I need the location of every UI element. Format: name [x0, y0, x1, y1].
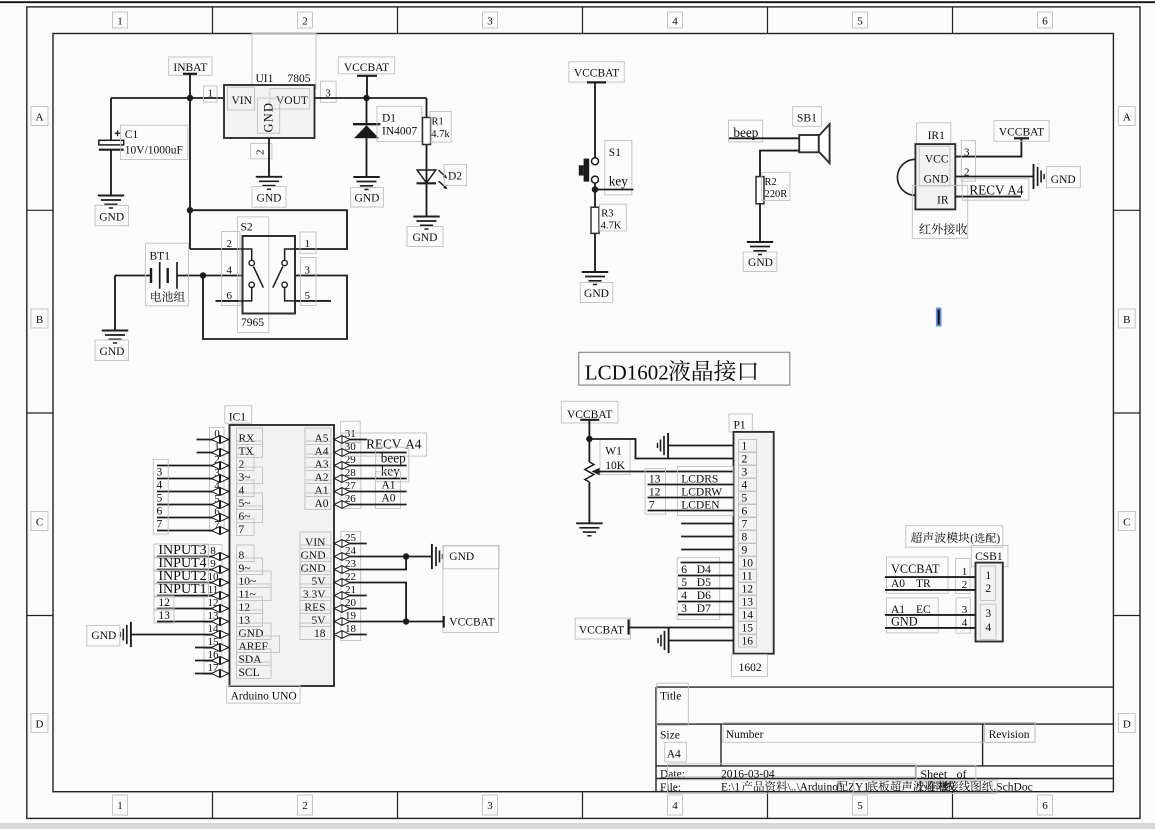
- svg-text:GND: GND: [891, 614, 918, 628]
- LED D2: [417, 170, 436, 183]
- svg-text:柀: 柀: [938, 780, 950, 794]
- IC1 pin name A0: [305, 493, 331, 510]
- wire pin4 feed: [203, 275, 243, 277]
- svg-text:2: 2: [742, 454, 748, 466]
- svg-text:2: 2: [302, 16, 308, 28]
- junction switch feed: [187, 207, 193, 213]
- junction pins 22-19: [403, 618, 409, 624]
- svg-text:VCCBAT: VCCBAT: [449, 617, 494, 629]
- connector CSB1 body: [976, 563, 1003, 642]
- svg-text:LCD1602: LCD1602: [585, 360, 669, 384]
- svg-text:D2: D2: [448, 170, 462, 182]
- row tick right: [1113, 412, 1140, 414]
- net label INPUT1: [154, 583, 209, 597]
- svg-text:5: 5: [742, 493, 748, 505]
- wire IC1 pin19 VCCBAT: [334, 621, 444, 623]
- wire IC1 pin1 stub: [197, 452, 230, 454]
- row tick right: [1113, 615, 1140, 617]
- P1 pin number boxes: [739, 440, 757, 453]
- svg-text:3: 3: [487, 800, 493, 812]
- junction W1 top: [586, 436, 592, 442]
- CSB1 inner boxes: [980, 566, 995, 601]
- row label C left: [31, 512, 48, 531]
- wire P1 pin10: [681, 562, 734, 564]
- svg-text:GND: GND: [924, 174, 949, 186]
- svg-text:5: 5: [305, 290, 311, 302]
- svg-text:TR: TR: [916, 578, 931, 590]
- wire IC1 pin23 gnd: [334, 557, 406, 570]
- IR receiver IR1 body: [915, 144, 955, 209]
- IC1 pin numbers 30-26 box: [341, 442, 361, 508]
- junction at C1/INBAT: [187, 95, 193, 101]
- wire P1 pin15: [629, 627, 734, 629]
- IC1 pin number 1: [210, 441, 225, 454]
- title block Sheet field: [916, 765, 976, 782]
- title block Number field: [723, 723, 1035, 743]
- svg-text:SCL: SCL: [239, 667, 260, 679]
- svg-text:4: 4: [742, 480, 748, 492]
- IC1 pin name TX left: [237, 441, 263, 458]
- IC1 pin arrow L14: [212, 631, 229, 639]
- wire IC1 pin26 A0: [334, 504, 407, 506]
- ground below U1: [256, 176, 282, 178]
- IR1 designator box: [917, 123, 951, 144]
- IC1 pin name 6~ left: [237, 506, 263, 523]
- wire key stub: [595, 189, 633, 191]
- svg-text:VIN: VIN: [232, 95, 253, 107]
- ground right of IR1: [1033, 164, 1035, 189]
- power port VCCBAT ir: [994, 121, 1049, 142]
- svg-text:220R: 220R: [765, 189, 788, 200]
- svg-text:5: 5: [857, 800, 863, 812]
- column label 1 top: [113, 12, 128, 28]
- IC1 pin arrow L5: [212, 501, 229, 509]
- svg-text:12: 12: [158, 597, 170, 609]
- wire P1 pin13 D6: [678, 601, 734, 603]
- svg-text:13: 13: [649, 473, 661, 485]
- svg-text:VOUT: VOUT: [276, 95, 308, 107]
- IC1 gnd vcc labels box: [443, 546, 499, 633]
- S2 left pin numbers: [222, 232, 241, 306]
- IC1 pin name GND r1: [300, 545, 331, 562]
- svg-text:13: 13: [742, 597, 754, 609]
- wire IC1 pin28 key: [334, 478, 407, 480]
- svg-text:Revision: Revision: [989, 729, 1030, 741]
- svg-text:7: 7: [742, 519, 748, 531]
- row label A right: [1118, 107, 1135, 126]
- svg-text:Date:: Date:: [660, 769, 685, 781]
- svg-text:VCC: VCC: [925, 154, 949, 166]
- wire P1 pin11 D4: [678, 575, 734, 577]
- Arduino IC1 body: [230, 425, 335, 686]
- svg-text:GND: GND: [584, 288, 609, 300]
- svg-text:A5: A5: [314, 433, 328, 445]
- wire IC1 pin16 stub: [195, 660, 230, 662]
- svg-text:1: 1: [305, 238, 311, 250]
- svg-text:9~: 9~: [239, 563, 251, 575]
- title block date value: [668, 764, 916, 777]
- wire IC1 pin25 stub: [334, 543, 367, 545]
- IC1 pin name 3.3V r4: [300, 584, 331, 601]
- svg-text:GND: GND: [257, 193, 282, 205]
- wire IC1 pin10 net: [157, 582, 230, 584]
- svg-text:8: 8: [742, 532, 748, 544]
- ground below C1: [98, 195, 124, 197]
- wire IC1 pin27 A1: [334, 491, 407, 493]
- wire IR1 gnd pin: [955, 176, 1033, 178]
- svg-text:4.7K: 4.7K: [601, 221, 622, 232]
- svg-text:1: 1: [117, 800, 123, 812]
- IC1 pin arrow L2: [212, 462, 229, 470]
- svg-text:VCCBAT: VCCBAT: [891, 562, 940, 576]
- net label RECV_A4: [962, 179, 1029, 201]
- svg-text:4.7k: 4.7k: [431, 129, 450, 140]
- IC1 pin numbers 25-18 box: [341, 532, 361, 641]
- label R1: [430, 112, 451, 143]
- svg-text:TX: TX: [239, 446, 255, 458]
- power port VCCBAT p15: [575, 618, 630, 639]
- power port VCCBAT ic1: [443, 616, 445, 628]
- svg-text:6: 6: [681, 564, 687, 576]
- column label 6 top: [1038, 12, 1053, 28]
- svg-text:9: 9: [742, 545, 748, 557]
- wire IC1 pin13 net: [157, 621, 230, 623]
- IC1 pin name VIN r0: [300, 532, 331, 549]
- IC1 pin arrow R9: [334, 579, 350, 587]
- svg-text:LCDRS: LCDRS: [681, 473, 718, 485]
- svg-text:RES: RES: [304, 602, 325, 614]
- svg-text:key: key: [381, 464, 400, 479]
- svg-text:D7: D7: [697, 603, 711, 615]
- IC1 pin arrow L15: [212, 644, 229, 652]
- row tick right: [1113, 209, 1140, 211]
- IC1 pin name 12 left: [237, 597, 263, 614]
- column label 5 top: [853, 12, 868, 28]
- net RECV_A4 box: [342, 433, 427, 456]
- junction key node: [592, 186, 598, 192]
- svg-text:A4: A4: [405, 437, 422, 452]
- IC1 pin name 5V r3: [300, 571, 331, 588]
- svg-text:INPUT1: INPUT1: [158, 582, 206, 597]
- svg-text:A: A: [36, 112, 44, 124]
- wire IC1 pin29 beep: [334, 465, 407, 467]
- svg-text:W1: W1: [605, 446, 622, 458]
- row label B right: [1118, 309, 1135, 328]
- wire R2 to gnd: [759, 204, 761, 242]
- ground below D2: [413, 216, 439, 218]
- column tick top: [582, 7, 584, 34]
- IC1 pin name 5~ left: [237, 493, 263, 510]
- svg-text:P1: P1: [734, 420, 746, 432]
- IC1 pin name A5: [305, 428, 331, 445]
- wire IC1 pin8 net: [157, 556, 230, 558]
- IC1 pin name RES r5: [300, 597, 331, 614]
- IR1 pin numbers 3 2: [961, 141, 975, 182]
- svg-text:2: 2: [985, 583, 991, 595]
- svg-text:GND: GND: [355, 193, 380, 205]
- ground below BT1: [102, 330, 128, 332]
- wire D1 top lead: [366, 98, 368, 124]
- IC1 pin name 13 left: [237, 610, 263, 627]
- IC1 pin number 5: [210, 493, 225, 506]
- svg-text:GND: GND: [99, 212, 124, 224]
- wire P1 pin4 LCDRS: [648, 484, 734, 486]
- wire P1 pin9 stub: [681, 549, 733, 551]
- svg-text:3.3V: 3.3V: [303, 589, 326, 601]
- switch S1: [592, 158, 599, 165]
- svg-text:D: D: [36, 719, 44, 731]
- IC1 pin name RX left: [237, 428, 263, 445]
- svg-text:7805: 7805: [288, 73, 311, 85]
- label D1: [377, 106, 422, 141]
- IC1 pin number 10: [204, 571, 222, 584]
- svg-text:10: 10: [742, 558, 754, 570]
- svg-text:2: 2: [239, 459, 245, 471]
- wire IC1 pin14 gnd: [131, 634, 230, 636]
- svg-text:A4: A4: [314, 446, 328, 458]
- wire INBAT rail: [111, 97, 224, 99]
- speaker SB1: [799, 135, 819, 152]
- IC1 pin arrow R0: [334, 436, 350, 444]
- wire bottom loop to pin3: [203, 276, 347, 340]
- IC1 pin name 3~ left: [237, 467, 263, 484]
- IC1 pin arrow R4: [334, 488, 350, 496]
- IC1 pin arrow R1: [334, 449, 350, 457]
- svg-text:5V: 5V: [311, 576, 326, 588]
- svg-text:File:: File:: [660, 782, 681, 794]
- S2 pin numbers 3 5: [301, 258, 317, 306]
- IC1 pin arrow L12: [212, 605, 229, 613]
- wire IC1 pin0 stub: [197, 439, 230, 441]
- column tick bottom: [582, 792, 584, 819]
- wire IC1 pin17 stub: [195, 673, 230, 675]
- label GND right of IC1: [443, 546, 499, 569]
- svg-text:6: 6: [157, 506, 163, 518]
- wire C1 top lead: [110, 98, 112, 140]
- IC1 pin number 0: [210, 428, 225, 441]
- svg-text:GND: GND: [748, 257, 773, 269]
- column label 5 bottom: [853, 795, 868, 815]
- svg-text:A1: A1: [382, 480, 396, 492]
- svg-text:GND: GND: [1051, 174, 1076, 186]
- S2 right pole: [285, 249, 295, 260]
- svg-text:7: 7: [239, 524, 245, 536]
- wire CSB1 pin3 A1_EC: [885, 614, 976, 616]
- svg-text:D6: D6: [697, 590, 711, 602]
- svg-text:3: 3: [305, 265, 311, 277]
- svg-text:1: 1: [742, 441, 748, 453]
- wire IC1 pin9 net: [157, 569, 230, 571]
- svg-text:Sheet: Sheet: [921, 767, 948, 781]
- svg-text:4: 4: [239, 485, 245, 497]
- net label INPUT3: [154, 544, 209, 558]
- svg-text:2: 2: [227, 238, 233, 250]
- IC1 pin arrow R5: [334, 501, 350, 509]
- svg-text:RECV: RECV: [366, 437, 402, 452]
- column tick top: [212, 7, 214, 34]
- svg-text:GND: GND: [301, 563, 326, 575]
- svg-text:C: C: [36, 517, 43, 529]
- title block outline: [656, 686, 1113, 688]
- column tick bottom: [952, 792, 954, 819]
- IC1 pin name 9~ left: [237, 558, 263, 575]
- wire W1 top lead: [588, 439, 590, 462]
- svg-text:B: B: [1123, 314, 1130, 326]
- power port INBAT: [169, 57, 212, 75]
- label C1 value box: [121, 125, 188, 159]
- svg-text:1: 1: [985, 570, 991, 582]
- svg-text:A3: A3: [314, 459, 328, 471]
- S2 pin number 1: [300, 232, 316, 253]
- junction at BT1 plus: [200, 272, 206, 278]
- IC1 pin name A1: [305, 480, 331, 497]
- net numbers 13 12 7 box: [645, 469, 665, 514]
- wire IC1 pin5 net: [157, 504, 230, 506]
- IR1 pin name boxes: [919, 146, 950, 186]
- column tick top: [767, 7, 769, 34]
- svg-text:4: 4: [157, 480, 163, 492]
- wire C1 bottom lead: [110, 150, 112, 196]
- IC1 pin number 7: [210, 519, 225, 532]
- svg-text:A1: A1: [314, 485, 328, 497]
- svg-text:3: 3: [681, 603, 687, 615]
- IC1 pin name A4: [305, 441, 331, 458]
- column label 2 bottom: [298, 795, 313, 815]
- svg-text:A0: A0: [382, 493, 396, 505]
- IC1 pin number 9: [204, 558, 222, 571]
- ground left of P1 pin1: [667, 433, 669, 458]
- svg-text:IR1: IR1: [928, 130, 946, 142]
- svg-text:2016-03-04: 2016-03-04: [721, 769, 775, 781]
- CSB1 pin boxes 1 2: [956, 559, 971, 594]
- svg-text:7965: 7965: [241, 317, 264, 329]
- svg-text:VCCBAT: VCCBAT: [574, 68, 619, 80]
- wire IR1 vcc to VCCBAT: [955, 139, 1021, 157]
- svg-text:Size: Size: [660, 729, 680, 741]
- net label 12: [154, 596, 174, 610]
- row label D right: [1118, 714, 1135, 733]
- svg-text:ZY1: ZY1: [848, 782, 869, 794]
- pin number 2 of U1: [251, 143, 272, 158]
- ground left of P1 pin16: [668, 628, 670, 653]
- svg-text:S2: S2: [241, 222, 253, 234]
- wire IC1 pin2 net: [157, 465, 230, 467]
- svg-text:5: 5: [857, 16, 863, 28]
- row label D left: [31, 714, 48, 733]
- IC1 pin name 11~ left: [237, 584, 272, 601]
- svg-text:EC: EC: [916, 604, 931, 616]
- IC1 pin name GND r2: [300, 558, 331, 575]
- svg-text:2: 2: [302, 800, 308, 812]
- wire beep to speaker: [729, 137, 799, 139]
- CSB1 designator box: [971, 546, 1008, 567]
- wire IC1 pin7 net: [157, 530, 230, 532]
- wire CSB1 pin2 A0_TR: [885, 589, 976, 591]
- capacitor C1: [99, 140, 124, 145]
- label S1 key: [605, 141, 632, 195]
- svg-text:16: 16: [742, 636, 754, 648]
- column tick top: [952, 7, 954, 34]
- net label 13: [154, 609, 174, 623]
- row label B left: [31, 309, 48, 328]
- diode D1: [353, 123, 380, 125]
- svg-text:E:\1: E:\1: [721, 782, 740, 794]
- wire CSB1 pin1 VCCBAT: [885, 576, 976, 578]
- pin name VIN: [228, 87, 255, 110]
- net label INPUT4: [154, 557, 209, 571]
- IC1 pin arrow R10: [334, 592, 350, 600]
- wire BT1 minus to gnd: [114, 276, 116, 331]
- label Arduino UNO: [227, 686, 300, 703]
- wire P1 pin16: [669, 640, 734, 642]
- svg-text:D5: D5: [697, 577, 711, 589]
- battery BT1: [115, 275, 151, 277]
- svg-text:7: 7: [649, 499, 655, 511]
- IC1 pin arrow L8: [212, 553, 229, 561]
- net label INPUT2: [154, 570, 209, 584]
- svg-text:VCCBAT: VCCBAT: [579, 625, 624, 637]
- wire speaker lower lead: [760, 151, 799, 177]
- svg-text:C: C: [1123, 517, 1130, 529]
- S2 pin5 stub: [295, 300, 331, 302]
- column tick bottom: [397, 792, 399, 819]
- net beep key box: [376, 447, 409, 482]
- svg-text:D1: D1: [382, 113, 396, 125]
- column tick top: [397, 7, 399, 34]
- svg-text:\..\Arduino: \..\Arduino: [788, 782, 839, 794]
- pin name VOUT: [270, 89, 310, 109]
- potentiometer W1: [585, 462, 594, 482]
- column tick bottom: [767, 792, 769, 819]
- label D2: [444, 164, 466, 185]
- svg-text:5: 5: [681, 577, 687, 589]
- svg-text:GND: GND: [301, 550, 326, 562]
- IC1 pin arrow L1: [212, 449, 229, 457]
- wire IC1 pin31 stub: [334, 439, 367, 441]
- CSB1 pin boxes 3 4: [956, 598, 970, 633]
- svg-text:S1: S1: [609, 147, 621, 159]
- svg-text:D: D: [1123, 719, 1131, 731]
- svg-text:IC1: IC1: [229, 412, 247, 424]
- svg-text:3: 3: [487, 16, 493, 28]
- wire P1 pin8 stub: [681, 536, 733, 538]
- svg-text:10K: 10K: [605, 460, 626, 472]
- svg-text:13: 13: [239, 615, 251, 627]
- IC1 pin arrow R12: [334, 618, 350, 626]
- net A1 A0 box: [375, 472, 400, 509]
- IC1 pin number 13: [204, 610, 222, 623]
- IC1 pin arrow L10: [212, 579, 229, 587]
- page top edge line: [0, 1, 1155, 3]
- regulator U1 7805 body: [224, 85, 315, 138]
- label R2: [762, 172, 790, 200]
- switch S2 designator box: [237, 217, 268, 333]
- power port VCCBAT w1: [561, 401, 618, 423]
- column label 3 bottom: [483, 795, 498, 815]
- svg-text:18: 18: [314, 628, 326, 640]
- title block Title field: [657, 683, 689, 725]
- svg-text:A0: A0: [891, 578, 905, 590]
- svg-text:4: 4: [985, 622, 991, 634]
- pin name GND vertical: [258, 98, 280, 133]
- IC1 pin number 3: [210, 467, 225, 480]
- label W1: [600, 439, 630, 475]
- svg-text:5~: 5~: [239, 498, 251, 510]
- ultrasonic title: [906, 526, 1003, 548]
- svg-text:4: 4: [681, 590, 687, 602]
- IC1 pin name 10~ left: [237, 571, 272, 588]
- ground below R3: [582, 271, 608, 273]
